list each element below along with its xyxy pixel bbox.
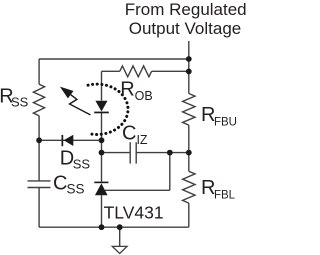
junction dot node ground tap [117,224,123,230]
node VOUT: supply drop wire from 'From Regulated Output Voltage' [188,41,190,59]
wire TLV431 reference horizontal segment [105,189,170,191]
ground symbol (open triangle) [112,246,127,253]
svg-text:Output Voltage: Output Voltage [129,19,241,38]
wire bottom rail [39,226,189,228]
junction dot node REF riser [167,150,173,156]
resistor RFBU (zigzag) [183,94,195,126]
ground stem wire [119,227,121,246]
wire CIZ left segment [102,152,131,154]
wire left rail lower segment [38,188,40,228]
svg-text:CIZ: CIZ [122,123,148,147]
junction dot node feedback divider [186,150,192,156]
LED D1 cathode bar [94,112,109,114]
junction dot node DSS-LED cathode [99,137,105,143]
LED D1 triangle (optocoupler emitter) [95,101,107,112]
junction dot node TLV431 anode on bottom rail [99,224,105,230]
wire right rail lower segment to bottom rail [188,203,190,227]
svg-text:RFBU: RFBU [201,104,237,128]
svg-text:RSS: RSS [0,86,29,110]
svg-text:DSS: DSS [60,147,91,171]
svg-text:ROB: ROB [120,79,153,103]
wire LED branch anode segment [101,71,103,100]
wire LED branch cathode segment down to DSS node [101,112,103,152]
junction dot node ROB right [186,69,192,75]
TLV431 U1 triangle [95,183,108,195]
wire DSS horizontal branch [39,139,101,141]
optocoupler package dashed ellipse [88,84,128,134]
wire top rail from RSS top to right rail [39,58,189,60]
wire from CIZ node down to TLV431 cathode [101,153,103,182]
capacitor CIZ left plate [129,142,131,163]
light emission arrow zigzag shaft [70,95,91,115]
capacitor CIZ right plate [135,142,137,163]
resistor ROB (zigzag) [120,66,152,77]
wire left rail upper segment [38,59,40,84]
resistor RSS (zigzag) [33,84,44,116]
wire TLV431 anode to bottom rail [101,195,103,227]
resistor RFBL (zigzag) [183,171,195,203]
capacitor CSS bottom plate [28,187,51,189]
wire ROB right stub to right rail [152,70,189,72]
wire right rail middle segment [188,125,190,171]
wire TLV431 reference vertical segment up to feedback node [169,153,171,191]
wire CIZ right segment to feedback node [136,152,189,154]
light emission arrow head [60,87,74,99]
wire ROB left stub from LED branch corner [102,70,120,72]
shunt regulator TLV431 U1 cathode bar [94,182,108,184]
diode DSS cathode bar [62,135,64,146]
wire right rail upper segment [188,59,190,94]
svg-text:From Regulated: From Regulated [125,0,247,19]
svg-text:RFBL: RFBL [201,177,236,201]
junction dot node DSS left on left rail [36,137,42,143]
junction dot node CIZ left [99,150,105,156]
svg-text:CSS: CSS [53,173,84,197]
wire left rail middle segment [38,116,40,181]
junction dot node VOUT top [186,56,192,62]
diode DSS triangle [64,135,74,146]
svg-text:TLV431: TLV431 [104,202,164,222]
capacitor CSS top plate [28,180,51,182]
